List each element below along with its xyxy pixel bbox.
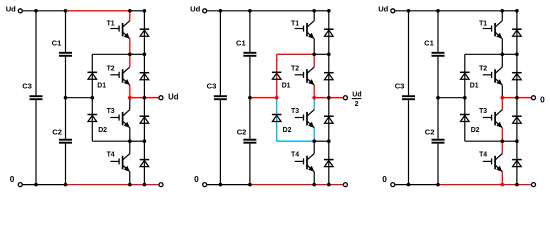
capacitor C2 xyxy=(59,140,72,143)
junction panel 1 xyxy=(34,183,38,187)
junction panel 1 xyxy=(143,9,147,13)
junction panel 3 xyxy=(501,9,505,13)
wire transistor leg segment panel 2 xyxy=(313,54,315,67)
diode DF1 (antiparallel to T1) xyxy=(512,29,522,36)
wire T1/T2 junction to diode leg panel 1 xyxy=(130,53,145,55)
junction panel 1 xyxy=(64,183,68,187)
junction panel 3 xyxy=(501,183,505,187)
junction panel 3 xyxy=(515,96,519,100)
svg-text:D2: D2 xyxy=(471,127,480,134)
wire C3 column lower panel 1 xyxy=(35,100,37,185)
capacitor C1 xyxy=(59,53,72,56)
capacitor C3 xyxy=(214,96,227,99)
svg-text:D1: D1 xyxy=(470,82,479,89)
junction panel 1 xyxy=(128,139,132,143)
junction panel 1 xyxy=(143,139,147,143)
svg-text:C2: C2 xyxy=(425,127,435,136)
wire C1-C2 column middle panel 3 xyxy=(437,57,439,139)
junction panel 2 xyxy=(327,183,331,187)
wire freewheel diode leg panel 3 xyxy=(516,11,518,185)
junction panel 2 xyxy=(327,53,331,57)
svg-text:T4: T4 xyxy=(107,151,115,158)
junction panel 1 xyxy=(128,183,132,187)
diode DF4 (antiparallel to T4) xyxy=(512,160,522,167)
svg-text:T2: T2 xyxy=(107,65,115,72)
wire top rail highlighted panel 1 xyxy=(66,10,130,12)
junction panel 2 xyxy=(327,139,331,143)
wire transistor leg segment panel 2 xyxy=(313,98,315,110)
svg-text:C3: C3 xyxy=(22,82,32,91)
wire D1 cathode to T1/T2 junction panel 1 xyxy=(92,53,130,55)
transistor T4 xyxy=(295,154,315,172)
diode DF4 (antiparallel to T4) xyxy=(324,160,334,167)
diode DF2 (antiparallel to T2) xyxy=(512,73,522,80)
svg-text:Ud: Ud xyxy=(190,4,200,13)
wire C1 column upper panel 3 xyxy=(437,11,439,52)
junction panel 2 xyxy=(312,53,316,57)
svg-text:C3: C3 xyxy=(395,82,405,91)
svg-text:T1: T1 xyxy=(107,20,115,27)
transistor T2 xyxy=(483,67,503,85)
svg-text:T2: T2 xyxy=(291,65,299,72)
transistor T3 xyxy=(295,110,315,128)
junction panel 2 xyxy=(312,183,316,187)
capacitor C1 xyxy=(432,53,445,56)
svg-text:C2: C2 xyxy=(52,127,62,136)
wire clamp diode column upper (D1) panel 3 xyxy=(464,54,466,97)
wire top rail mid panel 2 xyxy=(250,10,314,12)
junction panel 2 xyxy=(312,9,316,13)
diode DF3 (antiparallel to T3) xyxy=(140,116,150,123)
junction panel 2 xyxy=(312,96,316,100)
wire freewheel diode leg panel 1 xyxy=(143,11,145,185)
wire transistor leg segment panel 3 xyxy=(501,172,503,185)
wire clamp diode column upper (D1) panel 1 xyxy=(91,54,93,97)
wire bottom rail highlighted panel 3 xyxy=(438,184,532,186)
diode DF2 (antiparallel to T2) xyxy=(140,73,150,80)
junction panel 1 xyxy=(128,53,132,57)
junction panel 2 xyxy=(327,96,331,100)
wire neutral point to clamp diodes panel 3 xyxy=(438,97,465,99)
wire clamp diode column lower (D2) panel 2 xyxy=(276,98,278,142)
wire transistor leg segment panel 2 xyxy=(313,39,315,55)
svg-text:T1: T1 xyxy=(479,20,487,27)
svg-text:D1: D1 xyxy=(282,82,291,89)
junction panel 3 xyxy=(515,183,519,187)
wire D1 cathode to T1/T2 junction panel 3 xyxy=(465,53,503,55)
svg-text:D1: D1 xyxy=(97,82,106,89)
wire transistor leg segment panel 1 xyxy=(129,85,131,98)
wire neutral point to clamp diodes panel 2 xyxy=(250,97,277,99)
diode D2 xyxy=(460,115,470,122)
junction panel 1 xyxy=(143,53,147,57)
svg-text:T4: T4 xyxy=(479,151,487,158)
node Ud+ (DC+ terminal) panel 2 xyxy=(190,4,207,13)
node Ud+ (DC+ terminal) panel 3 xyxy=(378,4,395,13)
junction panel 1 xyxy=(143,183,147,187)
wire D2 anode to T3/T4 junction panel 2 xyxy=(277,140,315,142)
wire C1 column upper panel 2 xyxy=(249,11,251,52)
svg-text:T3: T3 xyxy=(479,108,487,115)
svg-text:T3: T3 xyxy=(291,108,299,115)
wire C3 column upper panel 3 xyxy=(408,11,410,96)
wire top rail mid panel 3 xyxy=(438,10,502,12)
wire bottom rail highlighted panel 2 xyxy=(250,184,344,186)
junction panel 3 xyxy=(436,183,440,187)
wire transistor leg segment panel 2 xyxy=(313,11,315,21)
svg-text:Ud: Ud xyxy=(6,4,16,13)
junction panel 2 xyxy=(275,96,279,100)
svg-text:Ud: Ud xyxy=(168,93,179,102)
junction panel 2 xyxy=(248,9,252,13)
wire transistor leg segment panel 3 xyxy=(501,98,503,110)
junction panel 1 xyxy=(128,96,132,100)
junction panel 1 xyxy=(128,9,132,13)
svg-text:Ud: Ud xyxy=(352,92,361,99)
node output terminal lower panel 2 xyxy=(343,183,347,187)
junction panel 2 xyxy=(219,9,223,13)
svg-text:0: 0 xyxy=(10,174,15,184)
junction panel 1 xyxy=(34,9,38,13)
diode D2 xyxy=(88,115,98,122)
junction panel 1 xyxy=(64,9,68,13)
junction panel 2 xyxy=(312,139,316,143)
transistor T4 xyxy=(483,154,503,172)
transistor T4 xyxy=(110,154,130,172)
wire transistor leg segment panel 1 xyxy=(129,98,131,110)
svg-text:T2: T2 xyxy=(479,65,487,72)
wire transistor leg segment panel 2 xyxy=(313,141,315,153)
diode DF1 (antiparallel to T1) xyxy=(324,29,334,36)
wire C3 column upper panel 1 xyxy=(35,11,37,96)
svg-text:C1: C1 xyxy=(236,39,246,48)
wire top rail right panel 3 xyxy=(502,10,517,12)
junction panel 3 xyxy=(407,9,411,13)
wire output panel 2 xyxy=(314,97,343,99)
wire transistor leg segment panel 3 xyxy=(501,39,503,55)
junction panel 3 xyxy=(463,96,467,100)
wire transistor leg segment panel 1 xyxy=(129,141,131,153)
capacitor C3 xyxy=(402,96,415,99)
capacitor C2 xyxy=(243,140,256,143)
svg-text:0: 0 xyxy=(194,174,199,184)
wire clamp diode column lower (D2) panel 1 xyxy=(91,98,93,142)
wire T1/T2 junction to diode leg panel 3 xyxy=(502,53,517,55)
junction panel 1 xyxy=(91,96,95,100)
wire C1-C2 column middle panel 2 xyxy=(249,57,251,139)
diode DF1 (antiparallel to T1) xyxy=(140,29,150,36)
wire top rail right panel 2 xyxy=(314,10,329,12)
wire C1-C2 column middle panel 1 xyxy=(65,57,67,139)
junction panel 3 xyxy=(501,53,505,57)
wire bottom rail highlighted panel 1 xyxy=(66,184,160,186)
wire T1/T2 junction to diode leg panel 2 xyxy=(314,53,329,55)
wire C3 column lower panel 2 xyxy=(219,100,221,185)
wire transistor leg segment panel 1 xyxy=(129,128,131,141)
wire transistor leg segment panel 1 xyxy=(129,172,131,185)
wire bottom rail left panel 1 xyxy=(22,184,65,186)
svg-text:D2: D2 xyxy=(283,127,292,134)
capacitor C1 xyxy=(243,53,256,56)
svg-text:C1: C1 xyxy=(52,39,62,48)
svg-text:0: 0 xyxy=(540,94,545,104)
junction panel 3 xyxy=(501,96,505,100)
transistor T1 xyxy=(295,21,315,39)
transistor T1 xyxy=(483,21,503,39)
wire transistor leg segment panel 3 xyxy=(501,54,503,67)
wire output panel 1 xyxy=(130,97,159,99)
transistor T3 xyxy=(483,110,503,128)
node Ud+ (DC+ terminal) panel 1 xyxy=(6,4,23,13)
node output terminal lower panel 3 xyxy=(532,183,536,187)
junction panel 3 xyxy=(407,183,411,187)
wire transistor leg segment panel 2 xyxy=(313,85,315,98)
wire transistor leg segment panel 1 xyxy=(129,54,131,67)
wire transistor leg segment panel 3 xyxy=(501,141,503,153)
node output terminal upper panel 1 xyxy=(159,96,163,100)
wire output panel 3 xyxy=(502,97,531,99)
transistor T2 xyxy=(110,67,130,85)
diode D1 xyxy=(88,72,98,79)
diode D1 xyxy=(460,72,470,79)
diode DF2 (antiparallel to T2) xyxy=(324,73,334,80)
wire top rail left panel 3 xyxy=(395,10,438,12)
junction panel 2 xyxy=(327,9,331,13)
node output terminal upper panel 3 xyxy=(532,96,536,100)
wire C3 column upper panel 2 xyxy=(219,11,221,96)
wire bottom rail left panel 2 xyxy=(207,184,250,186)
wire transistor leg segment panel 3 xyxy=(501,85,503,98)
wire top rail right panel 1 xyxy=(130,10,145,12)
wire D1 cathode to T1/T2 junction panel 2 xyxy=(277,53,315,55)
wire D2 anode to T3/T4 junction panel 3 xyxy=(465,140,503,142)
junction panel 2 xyxy=(248,183,252,187)
diode D2 xyxy=(272,115,282,122)
wire transistor leg segment panel 1 xyxy=(129,39,131,55)
wire C2 column lower panel 2 xyxy=(249,144,251,185)
diode DF4 (antiparallel to T4) xyxy=(140,160,150,167)
junction panel 3 xyxy=(501,139,505,143)
diode DF3 (antiparallel to T3) xyxy=(324,116,334,123)
transistor T2 xyxy=(295,67,315,85)
junction panel 2 xyxy=(248,96,252,100)
wire C3 column lower panel 3 xyxy=(408,100,410,185)
wire D2 anode to T3/T4 junction panel 1 xyxy=(92,140,130,142)
wire bottom rail left panel 3 xyxy=(395,184,438,186)
wire transistor leg segment panel 2 xyxy=(313,172,315,185)
diode D1 xyxy=(272,72,282,79)
capacitor C3 xyxy=(30,96,43,99)
svg-text:0: 0 xyxy=(382,174,387,184)
junction panel 1 xyxy=(64,96,68,100)
node output terminal lower panel 1 xyxy=(159,183,163,187)
svg-text:Ud: Ud xyxy=(378,4,388,13)
wire T3/T4 junction to diode leg panel 1 xyxy=(130,140,145,142)
junction panel 3 xyxy=(436,9,440,13)
wire C1 column upper panel 1 xyxy=(65,11,67,52)
node output terminal upper panel 2 xyxy=(343,96,347,100)
wire clamp diode column lower (D2) panel 3 xyxy=(464,98,466,142)
wire transistor leg segment panel 3 xyxy=(501,128,503,141)
svg-text:2: 2 xyxy=(355,101,359,108)
diode DF3 (antiparallel to T3) xyxy=(512,116,522,123)
svg-text:T4: T4 xyxy=(291,151,299,158)
junction panel 2 xyxy=(219,183,223,187)
wire T3/T4 junction to diode leg panel 2 xyxy=(314,140,329,142)
wire clamp diode column upper (D1) panel 2 xyxy=(276,54,278,97)
node 0 (DC- terminal) panel 1 xyxy=(10,174,23,187)
junction panel 3 xyxy=(515,139,519,143)
wire top rail left panel 2 xyxy=(207,10,250,12)
wire transistor leg segment panel 2 xyxy=(313,128,315,141)
svg-text:D2: D2 xyxy=(98,127,107,134)
wire C2 column lower panel 3 xyxy=(437,144,439,185)
svg-text:T1: T1 xyxy=(291,20,299,27)
node 0 (DC- terminal) panel 2 xyxy=(194,174,207,187)
svg-text:C1: C1 xyxy=(424,39,434,48)
wire transistor leg segment panel 1 xyxy=(129,11,131,21)
wire T3/T4 junction to diode leg panel 3 xyxy=(502,140,517,142)
wire C2 column lower panel 1 xyxy=(65,144,67,185)
wire transistor leg segment panel 3 xyxy=(501,11,503,21)
svg-text:C2: C2 xyxy=(237,127,247,136)
junction panel 1 xyxy=(143,96,147,100)
transistor T1 xyxy=(110,21,130,39)
wire top rail left panel 1 xyxy=(22,10,65,12)
wire neutral point to clamp diodes panel 1 xyxy=(66,97,93,99)
label output voltage Ud/2 xyxy=(352,92,362,108)
junction panel 3 xyxy=(436,96,440,100)
wire freewheel diode leg panel 2 xyxy=(328,11,330,185)
svg-text:T3: T3 xyxy=(107,108,115,115)
capacitor C2 xyxy=(432,140,445,143)
junction panel 3 xyxy=(515,9,519,13)
node 0 (DC- terminal) panel 3 xyxy=(382,174,395,187)
junction panel 3 xyxy=(515,53,519,57)
transistor T3 xyxy=(110,110,130,128)
svg-text:C3: C3 xyxy=(207,82,217,91)
